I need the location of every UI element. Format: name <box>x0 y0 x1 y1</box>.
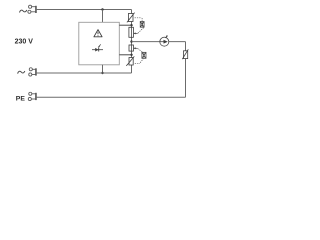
varistor RV2 <box>129 58 133 66</box>
suppressor diode symbol <box>92 49 103 51</box>
junction dot tap to lamp <box>130 40 132 42</box>
dashed link F2 arrow to I2 <box>138 49 143 52</box>
junction dot L-box <box>101 8 103 10</box>
wire stub box bottom <box>102 65 104 73</box>
wire L horizontal <box>37 9 132 11</box>
svg-text:230 V: 230 V <box>15 39 34 46</box>
dashed link RV2 to I2 <box>135 62 140 64</box>
junction dot and stub to box upper <box>130 24 132 26</box>
connector X1 L plug <box>28 5 36 13</box>
wire corner down right <box>185 42 187 98</box>
disconnect arrow F1 <box>134 32 137 34</box>
varistor RV1 <box>128 14 133 22</box>
wire N horizontal <box>37 72 132 74</box>
connector X3 PE plug <box>28 92 35 100</box>
wire PE horizontal <box>37 96 186 98</box>
indicator circle P1 <box>160 37 169 46</box>
arrester F1 <box>129 27 134 37</box>
AC tilde L <box>20 10 27 13</box>
junction dot and stub to box lower <box>130 54 132 56</box>
svg-text:PE: PE <box>16 95 26 102</box>
varistor RV3 <box>184 51 188 59</box>
tick arrow on circle <box>166 36 167 38</box>
indicator box I2 <box>142 52 146 58</box>
disconnect arrow F2 <box>134 47 137 49</box>
connector X2 N plug <box>29 68 36 76</box>
dashed link F1 arrow to I1 <box>138 28 144 34</box>
wire tap to indicator circle <box>132 41 186 43</box>
arrester F2 <box>129 45 133 51</box>
AC tilde N <box>18 71 25 74</box>
surge arrow above diode <box>98 44 100 47</box>
junction dot N-box <box>101 72 103 74</box>
wire L corner down <box>131 10 133 74</box>
wire stub box top <box>102 10 104 23</box>
dashed link RV1 to indicator I1 <box>135 17 142 19</box>
indicator box I1 <box>140 22 144 28</box>
protective device box U1 <box>79 22 120 65</box>
warning triangle <box>94 30 102 37</box>
